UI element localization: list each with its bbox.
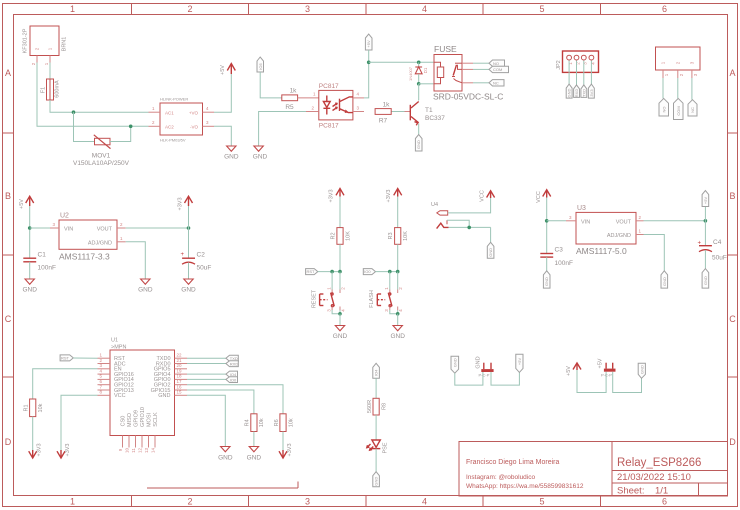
svg-text:+5V: +5V bbox=[366, 40, 371, 48]
svg-text:GND: GND bbox=[218, 455, 233, 462]
node junction bbox=[330, 270, 334, 274]
svg-text:GND: GND bbox=[544, 277, 549, 286]
svg-text:GND: GND bbox=[247, 455, 262, 462]
svg-text:B: B bbox=[729, 191, 735, 201]
svg-text:Sheet:: Sheet: bbox=[617, 486, 644, 497]
node junction bbox=[417, 61, 421, 65]
svg-text:100nF: 100nF bbox=[38, 265, 56, 272]
wire bbox=[331, 272, 333, 290]
svg-text:1/1: 1/1 bbox=[655, 486, 668, 497]
svg-text:1k: 1k bbox=[290, 88, 298, 95]
net tag GND (U3 adj) bbox=[661, 271, 668, 288]
wire bbox=[339, 314, 341, 326]
svg-text:R2: R2 bbox=[331, 232, 337, 239]
svg-text:D: D bbox=[5, 437, 12, 447]
svg-text:+3V3: +3V3 bbox=[37, 444, 43, 457]
pin 3 U1 bbox=[98, 363, 111, 369]
svg-text:A: A bbox=[5, 68, 11, 78]
net tag NO bbox=[489, 60, 505, 66]
net tag COM bbox=[489, 66, 509, 72]
pin 22 U1 bbox=[175, 353, 188, 359]
net tag +5V (U3 out) bbox=[702, 191, 709, 207]
svg-text:3V3: 3V3 bbox=[589, 89, 594, 97]
wire bbox=[369, 61, 434, 63]
wire bbox=[691, 78, 693, 100]
svg-text:GND: GND bbox=[452, 358, 457, 367]
resistor R7 1k bbox=[375, 102, 391, 125]
ground GND bbox=[333, 326, 348, 341]
svg-text:13: 13 bbox=[144, 448, 149, 454]
svg-text:MOV1: MOV1 bbox=[92, 153, 111, 160]
svg-text:17: 17 bbox=[177, 379, 183, 384]
svg-text:BC337: BC337 bbox=[425, 115, 445, 122]
svg-text:AMS1117-3.3: AMS1117-3.3 bbox=[59, 252, 110, 262]
svg-text:IO4: IO4 bbox=[374, 369, 379, 376]
wire bbox=[187, 385, 283, 414]
pin 4 PC817 bbox=[353, 92, 364, 98]
pin 21 U1 bbox=[175, 358, 188, 364]
wire bbox=[187, 373, 226, 375]
svg-text:R8: R8 bbox=[381, 403, 387, 410]
wire bbox=[282, 432, 284, 451]
svg-text:11: 11 bbox=[131, 448, 136, 453]
svg-text:D: D bbox=[729, 437, 736, 447]
svg-text:GND: GND bbox=[567, 88, 572, 97]
svg-text:100nF: 100nF bbox=[555, 260, 573, 267]
wire bbox=[448, 198, 491, 213]
svg-text:6: 6 bbox=[662, 497, 667, 507]
svg-text:RXD: RXD bbox=[574, 89, 579, 98]
svg-text:Relay_ESP8266: Relay_ESP8266 bbox=[617, 457, 701, 469]
svg-text:1: 1 bbox=[70, 497, 75, 507]
svg-text:10k: 10k bbox=[288, 418, 294, 427]
pin 10 U1 bbox=[125, 436, 130, 454]
svg-text:AMS1117-5.0: AMS1117-5.0 bbox=[576, 246, 627, 256]
dc jack U4 bbox=[431, 202, 449, 229]
node junction bbox=[396, 312, 400, 316]
svg-text:600mA: 600mA bbox=[55, 80, 61, 98]
svg-text:Francisco Diego Lima Moreira: Francisco Diego Lima Moreira bbox=[466, 459, 559, 466]
svg-text:1: 1 bbox=[70, 4, 75, 14]
svg-text:+3V3: +3V3 bbox=[329, 190, 335, 203]
svg-text:U4: U4 bbox=[431, 202, 438, 208]
pin 18 U1 bbox=[175, 374, 188, 380]
node junction bbox=[28, 226, 32, 230]
pin 12 U1 bbox=[138, 436, 143, 454]
net tag GND (emitter) bbox=[415, 135, 422, 152]
wire bbox=[644, 220, 706, 222]
wire bbox=[397, 314, 399, 326]
wire bbox=[390, 310, 398, 314]
svg-text:R3: R3 bbox=[388, 232, 394, 239]
svg-text:PC817: PC817 bbox=[319, 123, 339, 130]
svg-text:C3: C3 bbox=[555, 247, 564, 254]
svg-text:GND: GND bbox=[662, 277, 667, 286]
node junction bbox=[417, 82, 421, 86]
pin 1 HLK bbox=[149, 106, 161, 112]
net tag GND (LED) bbox=[373, 472, 380, 487]
svg-text:3: 3 bbox=[305, 4, 310, 14]
net tag IO0 bbox=[363, 269, 375, 275]
net tag COM (terminal) bbox=[674, 98, 684, 119]
wire bbox=[29, 262, 31, 279]
resistor R3 10K bbox=[388, 228, 409, 245]
wire bbox=[576, 61, 578, 85]
transistor T1 BC337 bbox=[405, 102, 446, 126]
pin 2 U1 bbox=[98, 358, 111, 364]
svg-text:10K: 10K bbox=[403, 231, 409, 241]
svg-text:P‑C‑P: P‑C‑P bbox=[479, 373, 490, 378]
svg-text:10k: 10k bbox=[38, 403, 44, 412]
wire bbox=[473, 62, 489, 64]
wire emitter bbox=[418, 124, 420, 135]
net tag NC bbox=[489, 80, 504, 86]
svg-text:C: C bbox=[729, 314, 736, 324]
net tag 3V3 (JP2-4) bbox=[588, 84, 594, 98]
svg-text:10k: 10k bbox=[259, 418, 265, 427]
wire bbox=[214, 126, 231, 146]
connector BRN1 KF301-2P bbox=[23, 26, 68, 56]
capacitor C6 header style bbox=[598, 358, 616, 377]
wire bbox=[126, 242, 146, 279]
power flag VCC bbox=[480, 190, 495, 202]
svg-text:GND: GND bbox=[488, 248, 493, 257]
svg-text:WhatsApp: https://wa.me/558599: WhatsApp: https://wa.me/558599831612 bbox=[466, 483, 584, 490]
wire bbox=[397, 272, 399, 290]
wire bbox=[364, 62, 369, 98]
svg-text:21/03/2022 15:10: 21/03/2022 15:10 bbox=[617, 472, 691, 483]
wire bbox=[126, 227, 189, 229]
capacitor C4 50uF polarized bbox=[698, 239, 727, 262]
svg-text:+3V3: +3V3 bbox=[178, 198, 184, 211]
led PSE bbox=[367, 440, 389, 454]
wire bbox=[397, 244, 399, 271]
regulator U2 AMS1117-3.3 bbox=[59, 213, 117, 262]
wire bbox=[187, 390, 254, 414]
pin 2 of BRN1 bbox=[31, 56, 37, 66]
net tag RST bbox=[306, 269, 318, 275]
svg-text:50uF: 50uF bbox=[712, 255, 727, 262]
wire bbox=[583, 61, 585, 85]
ground GND bbox=[253, 146, 268, 161]
svg-text:6: 6 bbox=[662, 4, 667, 14]
net tag GND (jack) bbox=[487, 242, 494, 258]
svg-text:KF301-2P: KF301-2P bbox=[23, 28, 29, 53]
wire bbox=[259, 112, 306, 147]
svg-text:RST: RST bbox=[61, 356, 70, 361]
pin 2 U2 bbox=[117, 222, 126, 228]
svg-text:+3V3: +3V3 bbox=[287, 444, 293, 457]
wire bbox=[490, 227, 492, 242]
svg-text:GND: GND bbox=[253, 154, 268, 161]
wire bbox=[339, 272, 341, 290]
relay FUSE SRD-05VDC-SL-C bbox=[433, 44, 503, 102]
wire bbox=[449, 226, 491, 228]
svg-text:+VO: +VO bbox=[189, 111, 199, 116]
fuse F1 600mA bbox=[41, 79, 61, 100]
svg-text:NO: NO bbox=[493, 61, 499, 66]
terminal block U5 bbox=[656, 47, 701, 70]
wire bbox=[368, 50, 370, 62]
wire bbox=[61, 395, 98, 450]
svg-text:Instagram: @roboludico: Instagram: @roboludico bbox=[466, 474, 535, 481]
ground GND bbox=[138, 279, 153, 294]
svg-text:AC2: AC2 bbox=[165, 125, 174, 130]
wire bbox=[704, 221, 706, 246]
diode D1 1N4007 bbox=[408, 66, 428, 81]
pin 16 U1 bbox=[175, 384, 188, 390]
title block bbox=[459, 442, 728, 497]
pin 1 PC817 bbox=[298, 92, 319, 98]
node junction bbox=[338, 312, 342, 316]
net tag +5V bbox=[365, 34, 372, 50]
relay pin COM bbox=[462, 68, 473, 70]
wire collector bbox=[417, 99, 419, 102]
svg-text:IO0: IO0 bbox=[230, 378, 237, 383]
svg-text:SCLK: SCLK bbox=[153, 412, 159, 427]
svg-text:R6: R6 bbox=[274, 419, 280, 426]
ground GND bbox=[181, 279, 196, 294]
svg-text:TXD: TXD bbox=[581, 89, 586, 97]
wire bbox=[339, 244, 341, 271]
svg-text:2: 2 bbox=[187, 497, 192, 507]
pin 14 U1 bbox=[151, 436, 156, 454]
resistor R5 1k bbox=[282, 88, 298, 112]
svg-text:GND: GND bbox=[333, 333, 348, 340]
net tag RXD (JP2-2) bbox=[574, 85, 580, 98]
wire bbox=[110, 126, 131, 141]
svg-text:+5V: +5V bbox=[703, 197, 708, 205]
wire bbox=[590, 61, 592, 85]
wire bbox=[547, 220, 566, 222]
wire bbox=[187, 378, 226, 380]
svg-text:B: B bbox=[5, 191, 11, 201]
svg-text:+5V: +5V bbox=[598, 358, 604, 368]
pin 1 U2 bbox=[117, 236, 126, 242]
header JP2 bbox=[556, 51, 599, 72]
wire bbox=[644, 235, 665, 271]
pin 6 U1 bbox=[98, 379, 111, 385]
pin 19 U1 bbox=[175, 368, 188, 374]
wire bbox=[187, 395, 225, 446]
wire bbox=[397, 197, 399, 228]
net tag GND (JP2-1) bbox=[566, 84, 572, 98]
ground GND (U1 pin15) bbox=[218, 447, 233, 462]
wire bbox=[188, 228, 190, 258]
svg-text:560R: 560R bbox=[367, 400, 373, 413]
net tag IO4 bbox=[226, 371, 238, 377]
power module HLK-PM03/5V bbox=[160, 97, 203, 143]
resistor R4 10k bbox=[245, 414, 266, 432]
wire bbox=[188, 263, 190, 280]
wire bbox=[419, 83, 434, 85]
wire bbox=[491, 372, 519, 385]
pin 1 of BRN1 bbox=[44, 56, 50, 66]
svg-text:IO4: IO4 bbox=[230, 372, 237, 377]
svg-text:GND: GND bbox=[416, 140, 421, 149]
power flag +5V (C6) bbox=[566, 363, 581, 376]
wire bbox=[375, 378, 377, 398]
pin 3 HLK bbox=[203, 120, 215, 126]
svg-text:22: 22 bbox=[177, 353, 183, 358]
varistor MOV1 V150LA10AP/250V bbox=[73, 135, 130, 167]
wire bbox=[473, 82, 489, 84]
power flag +3V3 (FLASH pullup) bbox=[386, 189, 402, 203]
svg-text:VCC: VCC bbox=[480, 190, 486, 202]
svg-text:HLK-PM03/5V: HLK-PM03/5V bbox=[160, 138, 186, 143]
pin 2 PC817 bbox=[306, 106, 319, 112]
svg-text:A: A bbox=[729, 68, 735, 78]
ground GND bbox=[390, 326, 405, 341]
svg-text:+3V3: +3V3 bbox=[65, 444, 71, 457]
relay pin NC bbox=[462, 82, 473, 84]
regulator U3 AMS1117-5.0 bbox=[576, 205, 636, 256]
svg-text:R1: R1 bbox=[24, 404, 30, 411]
relay pin NO bbox=[462, 62, 473, 64]
svg-text:GPIO10: GPIO10 bbox=[140, 407, 146, 427]
svg-text:3: 3 bbox=[305, 497, 310, 507]
power flag +3V3 (R1) bbox=[29, 444, 43, 459]
svg-text:GND: GND bbox=[374, 477, 379, 486]
svg-text:PSE: PSE bbox=[383, 442, 389, 453]
svg-text:19: 19 bbox=[177, 368, 183, 373]
node junction bbox=[187, 226, 191, 230]
svg-text:NC: NC bbox=[690, 107, 695, 113]
svg-text:R4: R4 bbox=[245, 419, 251, 426]
svg-text:MISO: MISO bbox=[127, 412, 133, 427]
svg-text:ADJ/GND: ADJ/GND bbox=[88, 240, 112, 246]
svg-text:21: 21 bbox=[177, 358, 183, 363]
svg-text:GND: GND bbox=[181, 287, 196, 294]
ground GND bbox=[224, 146, 239, 161]
net tag GND (C5 left) bbox=[451, 356, 459, 373]
node junction bbox=[704, 219, 708, 223]
wire bbox=[30, 227, 50, 229]
svg-text:14: 14 bbox=[151, 448, 156, 454]
svg-text:U3: U3 bbox=[577, 205, 586, 212]
svg-text:NC: NC bbox=[493, 80, 499, 85]
net tag NC (terminal) bbox=[688, 100, 697, 116]
optocoupler U? PC817 bbox=[319, 83, 353, 130]
wire bbox=[546, 198, 548, 254]
resistor R8 560R bbox=[367, 398, 387, 415]
net tag IO0 (U1) bbox=[226, 377, 238, 383]
wire bbox=[418, 62, 420, 67]
power flag +3V3 (VCC pin) bbox=[57, 444, 71, 459]
wire bbox=[389, 272, 391, 290]
svg-text:VCC: VCC bbox=[114, 393, 126, 399]
capacitor C3 100nF bbox=[540, 247, 573, 267]
pin 13 U1 bbox=[144, 436, 149, 454]
svg-text:FLASH: FLASH bbox=[369, 290, 375, 308]
wire bbox=[473, 68, 489, 70]
net tag NO (terminal) bbox=[659, 98, 669, 116]
node junction AC1/MOV bbox=[72, 110, 76, 114]
pin 2 HLK bbox=[149, 120, 161, 126]
pin 15 U1 bbox=[175, 390, 188, 396]
node junction bbox=[388, 270, 392, 274]
svg-text:F1: F1 bbox=[41, 87, 47, 93]
svg-text:CS0: CS0 bbox=[121, 416, 127, 427]
wire bbox=[187, 357, 226, 359]
wire bbox=[568, 61, 570, 85]
pushbutton FLASH bbox=[369, 287, 403, 312]
wire bbox=[74, 112, 95, 141]
pin 4 HLK bbox=[203, 106, 215, 112]
svg-text:5: 5 bbox=[539, 497, 544, 507]
wire bbox=[704, 207, 706, 221]
mcu U1 ESP8266 bbox=[110, 338, 175, 436]
svg-text:C: C bbox=[5, 314, 12, 324]
svg-text:MOSI: MOSI bbox=[147, 413, 153, 428]
node junction bbox=[338, 270, 342, 274]
power flag VCC (U3 input) bbox=[536, 190, 551, 203]
svg-text:GPIO9: GPIO9 bbox=[134, 410, 140, 427]
capacitor C5 header style bbox=[476, 356, 494, 377]
svg-text:GND: GND bbox=[390, 333, 405, 340]
svg-text:+5V: +5V bbox=[517, 358, 522, 366]
wire bbox=[253, 432, 255, 447]
power flag +3V3 (RESET pullup) bbox=[329, 189, 345, 203]
svg-text:-VO: -VO bbox=[190, 125, 199, 130]
wire bbox=[397, 310, 399, 314]
pushbutton RESET bbox=[312, 287, 346, 312]
svg-text:1k: 1k bbox=[383, 102, 391, 109]
net tag RXD bbox=[226, 361, 238, 367]
pin 8 U1 bbox=[98, 390, 111, 396]
ground GND (R4) bbox=[247, 447, 262, 462]
capacitor C1 100nF bbox=[23, 252, 56, 272]
wire bbox=[332, 310, 340, 314]
svg-text:NO: NO bbox=[661, 107, 666, 113]
svg-text:IO5: IO5 bbox=[258, 63, 263, 70]
svg-text:VIN: VIN bbox=[581, 220, 590, 226]
svg-text:ADJ/GND: ADJ/GND bbox=[607, 233, 631, 239]
svg-text:D1: D1 bbox=[423, 67, 428, 73]
svg-text:+5V: +5V bbox=[19, 199, 25, 209]
svg-text:C4: C4 bbox=[713, 239, 722, 246]
svg-text:10: 10 bbox=[125, 448, 130, 454]
wire bbox=[187, 363, 226, 365]
svg-text:5: 5 bbox=[539, 4, 544, 14]
svg-text:R5: R5 bbox=[285, 104, 294, 111]
wire bbox=[318, 271, 340, 273]
svg-text:2: 2 bbox=[187, 4, 192, 14]
wire bbox=[577, 370, 606, 393]
wire bbox=[37, 63, 149, 127]
wire bbox=[29, 206, 31, 258]
pin 7 U1 bbox=[98, 384, 111, 390]
svg-text:16: 16 bbox=[177, 384, 183, 389]
svg-text:IO0: IO0 bbox=[364, 269, 371, 274]
wire bbox=[546, 257, 548, 271]
power flag +5V (U2 input) bbox=[19, 196, 34, 209]
svg-text:>MPN: >MPN bbox=[111, 345, 126, 351]
wire bbox=[391, 111, 404, 113]
svg-text:U2: U2 bbox=[60, 213, 69, 220]
wire bbox=[375, 415, 377, 440]
net tag +5V (C5 right) bbox=[516, 354, 523, 372]
pin 1 terminal bbox=[663, 70, 669, 78]
svg-text:VOUT: VOUT bbox=[97, 227, 113, 233]
pin 20 U1 bbox=[175, 363, 188, 369]
net tag IO4 (LED) bbox=[373, 363, 380, 378]
wire bbox=[339, 310, 341, 314]
wire bbox=[418, 74, 420, 84]
node junction AC2/MOV bbox=[129, 125, 133, 129]
svg-text:T1: T1 bbox=[425, 107, 433, 114]
wire bbox=[613, 372, 642, 393]
